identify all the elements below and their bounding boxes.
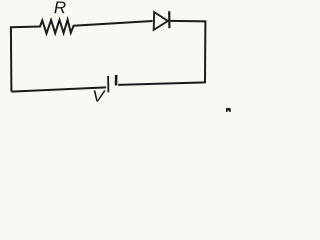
svg-text:R: R [54,0,66,17]
svg-text:V: V [92,87,106,105]
